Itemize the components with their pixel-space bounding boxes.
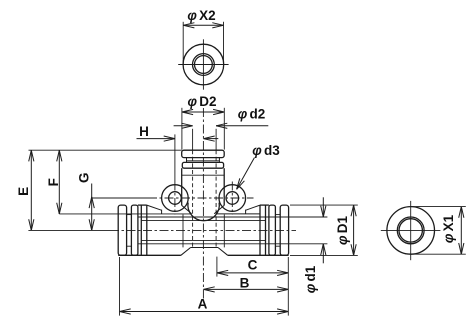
svg-text:φd3: φd3 xyxy=(252,143,280,158)
svg-text:φd2: φd2 xyxy=(238,107,265,122)
svg-text:φD2: φD2 xyxy=(188,94,217,109)
svg-text:F: F xyxy=(46,178,61,186)
svg-text:φd1: φd1 xyxy=(303,265,318,293)
svg-text:H: H xyxy=(139,124,149,139)
svg-text:B: B xyxy=(240,276,250,291)
svg-text:G: G xyxy=(76,172,91,183)
svg-text:C: C xyxy=(248,257,258,272)
svg-text:A: A xyxy=(198,296,208,311)
svg-text:φD1: φD1 xyxy=(335,216,350,245)
svg-text:φX2: φX2 xyxy=(187,8,215,23)
svg-text:φX1: φX1 xyxy=(441,214,456,243)
svg-text:E: E xyxy=(16,187,31,196)
